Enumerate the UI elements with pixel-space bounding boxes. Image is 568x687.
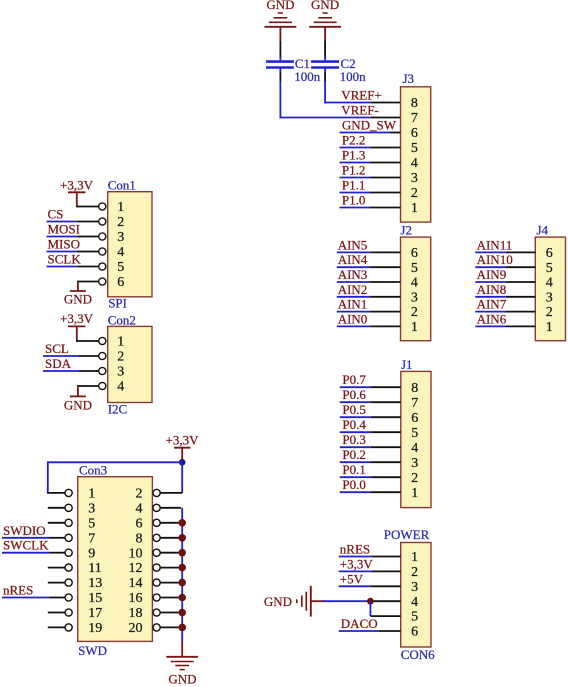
svg-text:8: 8	[136, 531, 143, 546]
power symbol GND (above C2)	[309, 0, 341, 27]
J3 pin number 5	[411, 141, 418, 156]
svg-text:VREF+: VREF+	[341, 88, 382, 103]
net AIN4 wire	[337, 266, 370, 268]
net P1.3 wire	[340, 162, 371, 164]
Con1 pin number 6	[117, 275, 124, 290]
svg-text:3: 3	[88, 501, 95, 516]
label POWER	[384, 527, 430, 542]
Con3 pin 20 circle	[153, 624, 160, 631]
wire Con3 pin 2 stub	[160, 492, 182, 494]
svg-text:J1: J1	[401, 357, 413, 372]
junction GND rail at pin 16	[178, 594, 186, 602]
svg-text:7: 7	[411, 111, 418, 126]
J2 pin number 3	[411, 290, 418, 305]
net label AIN6	[477, 311, 507, 326]
net label P0.2	[342, 447, 365, 462]
svg-text:5: 5	[411, 261, 418, 276]
Con1 pin number 4	[117, 245, 124, 260]
net SCLK wire	[47, 266, 77, 268]
Con3 pin number 9	[88, 546, 95, 561]
Con3 pin number 16	[129, 591, 143, 606]
net label SDA	[45, 356, 72, 371]
svg-text:6: 6	[136, 516, 143, 531]
Con1 pin number 2	[117, 215, 124, 230]
net AIN3 wire	[337, 281, 370, 283]
svg-text:15: 15	[88, 591, 102, 606]
net label AIN0	[338, 311, 368, 326]
J1 pin number 3	[411, 456, 418, 471]
wire J3 pin 5 stub	[371, 147, 401, 149]
Con3 pin 12 circle	[153, 564, 160, 571]
wire GND to net (red)	[311, 600, 324, 602]
label J3	[403, 71, 415, 86]
Con3 pin number 5	[88, 516, 95, 531]
svg-text:2: 2	[411, 471, 418, 486]
svg-text:J3: J3	[403, 71, 415, 86]
svg-text:5: 5	[88, 516, 95, 531]
svg-text:P1.0: P1.0	[342, 193, 365, 208]
label Con3	[79, 463, 107, 478]
net MISO wire	[47, 251, 77, 253]
net MOSI wire	[47, 236, 77, 238]
svg-text:MOSI: MOSI	[48, 222, 81, 237]
svg-text:2: 2	[411, 186, 418, 201]
Con1 pin 3 circle	[99, 233, 106, 240]
wire J2 pin 4 stub	[370, 281, 400, 283]
net label P2.2	[342, 133, 365, 148]
svg-text:3: 3	[411, 171, 418, 186]
wire J2 pin 3 stub	[370, 296, 400, 298]
net label P0.5	[342, 402, 365, 417]
net P0.7 wire	[340, 386, 371, 388]
net label AIN11	[477, 237, 513, 252]
wire J1 pin 4 stub	[371, 446, 401, 448]
svg-text:nRES: nRES	[3, 583, 33, 598]
Con2 pin number 1	[117, 335, 124, 350]
svg-text:1: 1	[88, 487, 95, 502]
J4 pin number 2	[546, 305, 553, 320]
wire J3 pin 7 stub	[370, 117, 400, 119]
label C2	[341, 56, 356, 71]
svg-text:+3,3V: +3,3V	[60, 177, 94, 192]
svg-text:1: 1	[411, 550, 418, 565]
wire Con3 pin 13 stub	[48, 582, 65, 584]
power symbol +3,3V (Con2)	[60, 311, 94, 341]
junction GND rail at pin 18	[178, 609, 186, 617]
svg-text:4: 4	[117, 380, 124, 395]
Con3 pin number 13	[88, 576, 102, 591]
svg-text:P0.3: P0.3	[342, 432, 365, 447]
wire CON6 pin 1 stub	[372, 556, 401, 558]
junction GND rail at pin 14	[178, 579, 186, 587]
J1 pin number 4	[411, 441, 418, 456]
svg-text:6: 6	[546, 246, 553, 261]
svg-text:AIN11: AIN11	[477, 237, 513, 252]
capacitor C1	[266, 57, 294, 73]
net AIN10 wire	[475, 266, 505, 268]
svg-text:4: 4	[117, 245, 124, 260]
wire GND to C1 (red stem)	[279, 27, 281, 42]
Con3 pin 2 circle	[153, 489, 160, 496]
svg-text:P2.2: P2.2	[342, 133, 365, 148]
net +3,3V wire to Con3 pin 1	[48, 461, 183, 493]
svg-text:GND: GND	[311, 0, 339, 12]
net label AIN7	[477, 297, 507, 312]
CON6 pin number 2	[411, 565, 418, 580]
svg-text:P0.7: P0.7	[342, 372, 366, 387]
wire J1 pin 8 stub	[371, 386, 401, 388]
Con3 pin 7 circle	[65, 534, 72, 541]
Con3 pin number 1	[88, 487, 95, 502]
Con3 pin 18 circle	[153, 609, 160, 616]
net AIN6 wire	[475, 325, 505, 327]
power symbol GND (Con1)	[64, 282, 92, 307]
net label SWCLK	[3, 538, 49, 553]
svg-text:GND: GND	[64, 291, 92, 306]
svg-text:AIN1: AIN1	[338, 297, 368, 312]
junction GND node (CON6)	[367, 598, 374, 605]
net P2.2 wire	[340, 147, 371, 149]
svg-text:SWDIO: SWDIO	[3, 523, 46, 538]
svg-text:6: 6	[411, 625, 418, 640]
net AIN1 wire	[337, 311, 370, 313]
Con3 pin 16 circle	[153, 594, 160, 601]
net +3,3V wire	[339, 570, 372, 572]
Con3 pin number 15	[88, 591, 102, 606]
net label SWDIO	[3, 523, 46, 538]
wire CON6 pin 6 stub	[379, 630, 401, 632]
label CON6	[401, 647, 435, 662]
Con3 pin number 4	[136, 501, 143, 516]
svg-text:+3,3V: +3,3V	[340, 556, 374, 571]
J4 pin number 3	[546, 290, 553, 305]
Con1 pin 2 circle	[99, 218, 106, 225]
connector J3 body	[401, 87, 431, 222]
wire J4 pin 6 stub	[506, 251, 536, 253]
net GND_SW wire	[340, 132, 391, 134]
net label P1.1	[342, 178, 365, 193]
svg-text:P0.2: P0.2	[342, 447, 365, 462]
wire Con3 pin 7 stub	[50, 537, 66, 539]
Con2 pin number 2	[117, 350, 124, 365]
wire CON6 pin 4 stub	[371, 600, 401, 602]
svg-text:11: 11	[88, 561, 101, 576]
wire Con3 pin 18 stub	[160, 612, 181, 614]
net SWDIO wire	[2, 537, 50, 539]
svg-text:Con1: Con1	[108, 178, 136, 193]
junction GND rail at pin 20	[178, 624, 186, 632]
Con3 pin number 11	[88, 561, 101, 576]
wire Con3 pin 11 stub	[48, 567, 65, 569]
Con3 pin number 10	[129, 546, 143, 561]
Con3 pin 3 circle	[65, 504, 72, 511]
net AIN2 wire	[337, 296, 370, 298]
Con3 pin 1 circle	[65, 489, 72, 496]
J1 pin number 6	[411, 411, 418, 426]
J3 pin number 2	[411, 186, 418, 201]
net AIN11 wire	[475, 251, 505, 253]
net P0.3 wire	[340, 446, 371, 448]
wire Con3 pin 17 stub	[48, 612, 65, 614]
Con3 pin number 6	[136, 516, 143, 531]
Con3 pin 13 circle	[65, 579, 72, 586]
net P1.0 wire	[340, 207, 371, 209]
net label DACO	[341, 616, 378, 631]
svg-text:I2C: I2C	[108, 401, 128, 416]
svg-text:4: 4	[411, 441, 418, 456]
wire Con3 pin 9 stub	[50, 552, 66, 554]
svg-text:6: 6	[117, 275, 124, 290]
net P0.4 wire	[340, 431, 371, 433]
junction GND rail at pin 10	[178, 549, 186, 557]
svg-text:2: 2	[411, 305, 418, 320]
junction GND rail at pin 6	[178, 519, 186, 527]
svg-text:POWER: POWER	[384, 527, 430, 542]
svg-text:P0.4: P0.4	[342, 417, 366, 432]
Con3 pin 11 circle	[65, 564, 72, 571]
Con2 pin 1 circle	[99, 337, 106, 344]
J2 pin number 2	[411, 305, 418, 320]
net P0.1 wire	[340, 476, 371, 478]
svg-text:1: 1	[411, 320, 418, 335]
wire Con3 pin 3 stub	[48, 507, 65, 509]
Con2 pin 4 circle	[99, 382, 106, 389]
wire C1 top pin	[279, 41, 281, 57]
J2 pin number 6	[411, 246, 418, 261]
svg-text:P0.0: P0.0	[342, 477, 365, 492]
wire GND to C2 (red stem)	[324, 27, 326, 42]
svg-text:CS: CS	[48, 207, 64, 222]
Con3 pin 15 circle	[65, 594, 72, 601]
svg-text:100n: 100n	[294, 69, 321, 84]
svg-text:10: 10	[129, 546, 143, 561]
wire J3 pin 4 stub	[371, 162, 401, 164]
wire Con3 pin 15 stub	[50, 597, 66, 599]
wire J3 pin 2 stub	[371, 192, 401, 194]
svg-text:3: 3	[411, 580, 418, 595]
svg-text:12: 12	[129, 561, 143, 576]
svg-text:GND: GND	[64, 397, 92, 412]
Con3 pin number 19	[88, 621, 102, 636]
svg-text:Con3: Con3	[79, 463, 107, 478]
Con3 pin number 7	[88, 531, 95, 546]
svg-text:AIN3: AIN3	[338, 267, 368, 282]
power symbol GND (CON6, rotated earth)	[264, 586, 311, 617]
svg-text:2: 2	[136, 487, 143, 502]
wire Con3 pin 10 stub	[160, 552, 181, 554]
net AIN7 wire	[475, 311, 505, 313]
svg-text:2: 2	[117, 215, 124, 230]
label SPI	[108, 296, 127, 311]
Con3 pin number 20	[129, 621, 143, 636]
svg-text:3: 3	[411, 456, 418, 471]
net +3,3V wire to Con3 pin 2	[181, 462, 183, 493]
J4 pin number 1	[546, 320, 553, 335]
svg-text:AIN4: AIN4	[338, 252, 368, 267]
net GND wire to CON6 pin 4	[323, 600, 371, 602]
wire +3,3V to Con2 pin 1	[76, 340, 99, 342]
wire J1 pin 1 stub	[371, 491, 401, 493]
Con3 pin number 8	[136, 531, 143, 546]
J3 pin number 1	[411, 201, 418, 216]
CON6 pin number 4	[411, 595, 418, 610]
wire Con3 pin 5 stub	[48, 522, 65, 524]
svg-text:GND: GND	[168, 672, 196, 687]
svg-text:P1.1: P1.1	[342, 178, 365, 193]
wire Con3 pin 8 stub	[160, 537, 181, 539]
svg-text:3: 3	[546, 290, 553, 305]
label I2C	[108, 401, 128, 416]
svg-text:DACO: DACO	[341, 616, 378, 631]
Con1 pin 5 circle	[99, 263, 106, 270]
svg-text:1: 1	[117, 335, 124, 350]
net AIN9 wire	[475, 281, 505, 283]
wire J1 pin 7 stub	[371, 401, 401, 403]
J4 pin number 4	[546, 276, 553, 291]
svg-text:P0.5: P0.5	[342, 402, 365, 417]
net label P1.2	[342, 163, 365, 178]
wire Con3 pin 1 stub	[47, 492, 65, 494]
connector Con1 body	[108, 192, 152, 297]
svg-text:+3,3V: +3,3V	[166, 433, 200, 448]
wire J2 pin 6 stub	[370, 251, 400, 253]
CON6 pin number 1	[411, 550, 418, 565]
svg-text:4: 4	[411, 156, 418, 171]
Con3 pin number 2	[136, 487, 143, 502]
svg-text:MISO: MISO	[48, 237, 81, 252]
net label MOSI	[48, 222, 81, 237]
CON6 pin number 6	[411, 625, 418, 640]
net label +5V	[340, 571, 364, 586]
wire Con3 pin 6 stub	[160, 522, 181, 524]
J3 pin number 7	[411, 111, 418, 126]
capacitor C2	[311, 57, 339, 73]
svg-text:9: 9	[88, 546, 95, 561]
net P0.5 wire	[340, 416, 371, 418]
wire CON6 pin 3 stub	[371, 585, 401, 587]
net label AIN1	[338, 297, 368, 312]
J3 pin number 8	[411, 96, 418, 111]
value 100n (C2)	[340, 69, 367, 84]
wire Con2 pin 4 to GND	[77, 385, 99, 387]
J1 pin number 2	[411, 471, 418, 486]
svg-text:AIN0: AIN0	[338, 311, 368, 326]
svg-text:P0.6: P0.6	[342, 387, 366, 402]
net SDA wire	[43, 370, 79, 372]
wire J4 pin 1 stub	[506, 325, 536, 327]
Con3 pin 14 circle	[153, 579, 160, 586]
junction GND rail at pin 8	[178, 534, 186, 542]
svg-text:8: 8	[411, 96, 418, 111]
svg-text:5: 5	[411, 141, 418, 156]
wire J3 pin 8 stub	[370, 102, 400, 104]
wire J4 pin 4 stub	[506, 281, 536, 283]
svg-text:SDA: SDA	[45, 356, 72, 371]
Con3 pin 19 circle	[65, 624, 72, 631]
svg-text:1: 1	[411, 486, 418, 501]
svg-text:6: 6	[411, 126, 418, 141]
net AIN0 wire	[337, 325, 370, 327]
Con3 pin 9 circle	[65, 549, 72, 556]
net label VREF-	[341, 103, 379, 118]
net label nRES	[340, 542, 370, 557]
svg-text:P1.2: P1.2	[342, 163, 365, 178]
Con3 pin number 17	[88, 606, 102, 621]
Con3 pin 4 circle	[153, 504, 160, 511]
svg-text:AIN8: AIN8	[477, 282, 507, 297]
net label MISO	[48, 237, 81, 252]
svg-text:6: 6	[411, 246, 418, 261]
label Con1	[108, 178, 136, 193]
J1 pin number 1	[411, 486, 418, 501]
wire J2 pin 1 stub	[370, 325, 400, 327]
net label SCL	[45, 341, 69, 356]
svg-text:J4: J4	[537, 222, 549, 237]
connector CON6 body	[401, 543, 431, 648]
svg-text:20: 20	[129, 621, 143, 636]
svg-text:16: 16	[129, 591, 143, 606]
svg-text:J2: J2	[400, 222, 412, 237]
connector J1 body	[401, 371, 431, 507]
svg-text:5: 5	[411, 610, 418, 625]
label J2	[400, 222, 412, 237]
net label P0.3	[342, 432, 365, 447]
net GND wire to CON6 pin 5	[369, 601, 371, 616]
Con1 pin number 5	[117, 260, 124, 275]
wire J1 pin 2 stub	[371, 476, 401, 478]
wire Con1 pin 3 stub	[77, 236, 99, 238]
Con3 pin number 3	[88, 501, 95, 516]
net +5V wire	[339, 585, 371, 587]
svg-text:SWCLK: SWCLK	[3, 538, 49, 553]
J3 pin number 4	[411, 156, 418, 171]
net AIN5 wire	[337, 251, 370, 253]
svg-text:+3,3V: +3,3V	[60, 311, 94, 326]
net label P1.0	[342, 193, 365, 208]
J1 pin number 8	[411, 381, 418, 396]
svg-text:18: 18	[129, 606, 143, 621]
net VREF- wire (C1 to J3 pin 7)	[280, 81, 371, 118]
svg-text:8: 8	[411, 381, 418, 396]
svg-text:Con2: Con2	[108, 312, 136, 327]
svg-text:1: 1	[411, 201, 418, 216]
net nRES wire	[339, 556, 372, 558]
value 100n (C1)	[294, 69, 321, 84]
net label AIN3	[338, 267, 368, 282]
label SWD	[78, 643, 107, 658]
wire J2 pin 2 stub	[370, 311, 400, 313]
Con1 pin 4 circle	[99, 248, 106, 255]
svg-text:GND: GND	[264, 594, 292, 609]
net label P0.0	[342, 477, 365, 492]
svg-text:4: 4	[136, 501, 143, 516]
svg-text:3: 3	[411, 290, 418, 305]
net P0.2 wire	[340, 461, 371, 463]
wire GND rail stem	[181, 641, 183, 657]
wire Con3 pin 12 stub	[160, 567, 181, 569]
svg-text:5: 5	[411, 426, 418, 441]
svg-text:1: 1	[546, 320, 553, 335]
label Con2	[108, 312, 136, 327]
svg-text:100n: 100n	[340, 69, 367, 84]
net label AIN4	[338, 252, 368, 267]
net label AIN2	[338, 282, 368, 297]
svg-text:SCL: SCL	[45, 341, 69, 356]
net label AIN9	[477, 267, 507, 282]
power symbol GND (Con2)	[64, 386, 92, 412]
Con2 pin 3 circle	[99, 367, 106, 374]
net AIN8 wire	[475, 296, 505, 298]
